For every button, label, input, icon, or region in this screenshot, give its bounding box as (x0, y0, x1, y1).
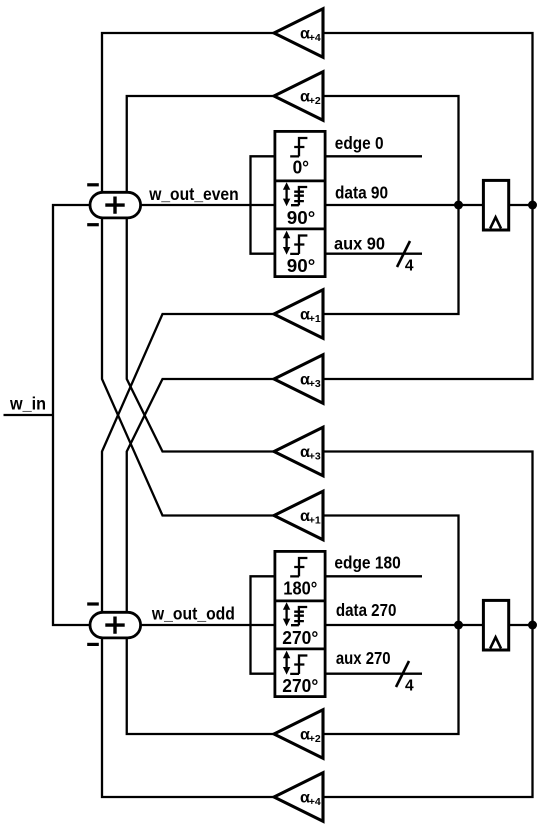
wire input bracket of bottom phase stack (251, 576, 275, 673)
svg-text:+3: +3 (309, 378, 321, 390)
wire alpha+2 top feedback: left to summer vertical (127, 96, 274, 193)
flip-flop U2 (odd delay element) (483, 600, 508, 650)
svg-text:edge 180: edge 180 (334, 552, 401, 572)
svg-text:aux 90: aux 90 (334, 233, 385, 253)
wire alpha+3 top output stub, diagonal to right vertical feeding summer S2 (127, 379, 274, 612)
wire w_out_even from summer S1 to phase box stack (141, 204, 275, 206)
wire left summer vertical down, diagonal to alpha+1 bottom output stub (102, 218, 274, 516)
svg-text:+2: +2 (309, 95, 321, 107)
svg-text:+1: +1 (309, 514, 321, 526)
summer S1 (even) (90, 192, 141, 218)
wire alpha+1 top output stub, diagonal to left vertical feeding summer S2 (102, 314, 274, 612)
wire data 270 output to flip-flop U2 and node (325, 624, 533, 626)
svg-text:w_in: w_in (9, 394, 46, 414)
flip-flop U1 (even delay element) (483, 180, 508, 230)
wire edge 0 output (325, 155, 422, 157)
wire alpha+4 bottom feedback: left to summer vertical (102, 638, 274, 797)
svg-text:w_out_even: w_out_even (148, 184, 238, 204)
phase generator block stack top (0/90/90) (275, 131, 325, 276)
svg-text:+3: +3 (309, 450, 321, 462)
wire alpha+4 top input from delayed data90 node (323, 33, 533, 379)
wire alpha+2 top input from data90 node; also alpha+1 top input (323, 96, 459, 314)
minus sign at S2 upper input (87, 602, 99, 605)
minus sign at S1 upper input (87, 183, 99, 186)
wire alpha+1 bottom input from data270 node; also alpha+2 bottom input (323, 516, 459, 735)
svg-text:4: 4 (405, 678, 414, 695)
bus-width slash on aux 270 (396, 661, 409, 687)
wire data 90 output to flip-flop U1 and node (325, 204, 533, 206)
svg-text:180°: 180° (283, 578, 317, 598)
wire alpha+2 bottom feedback: left to summer vertical (127, 638, 274, 734)
amplifier A5 alpha+3 bottom (274, 427, 323, 476)
svg-text:270°: 270° (282, 676, 318, 696)
svg-text:+4: +4 (309, 32, 321, 44)
amplifier A6 alpha+1 bottom (274, 491, 323, 540)
svg-text:+4: +4 (309, 796, 321, 808)
wire alpha+3 bottom input from delayed data270 node; also alpha+4 bottom input (323, 452, 533, 798)
node data270 delayed (junction dot) (528, 621, 537, 630)
svg-text:90°: 90° (287, 208, 316, 228)
summer S2 (odd) (90, 612, 141, 638)
node data270 (junction dot) (454, 621, 463, 630)
svg-text:+2: +2 (309, 733, 321, 745)
svg-text:aux 270: aux 270 (336, 648, 391, 668)
svg-text:90°: 90° (287, 256, 316, 276)
wire input bracket of top phase stack (251, 156, 275, 253)
edge-0 phase cell symbol (290, 137, 307, 157)
amplifier A2 alpha+2 top (274, 72, 323, 121)
amplifier A4 alpha+3 top (274, 355, 323, 404)
svg-text:0°: 0° (293, 157, 310, 177)
svg-text:270°: 270° (282, 628, 318, 648)
edge-180 phase cell symbol (290, 557, 307, 577)
aux-90 phase cell symbol (285, 237, 287, 248)
minus sign at S1 lower input (87, 223, 99, 226)
wire w_out_odd from summer S2 to phase box stack (141, 624, 275, 626)
svg-text:w_out_odd: w_out_odd (151, 604, 235, 624)
node data90 delayed (junction dot) (528, 201, 537, 210)
amplifier A8 alpha+4 bottom (274, 773, 323, 822)
bus-width slash on aux 90 (397, 241, 410, 267)
wire w_in input and vertical distribution to both summers (4, 205, 91, 625)
wire right summer vertical down, diagonal to alpha+3 bottom output stub (127, 218, 274, 452)
phase generator block stack bottom (180/270/270) (275, 551, 325, 696)
amplifier A1 alpha+4 top (274, 9, 323, 58)
wire aux 270 output (325, 673, 422, 675)
amplifier A3 alpha+1 top (274, 290, 323, 339)
data-90 phase cell symbol (285, 189, 287, 200)
svg-text:4: 4 (405, 258, 414, 275)
node data90 (junction dot) (454, 201, 463, 210)
wire aux 90 output (325, 253, 422, 255)
wire edge 180 output (325, 575, 422, 577)
svg-text:+1: +1 (309, 313, 321, 325)
minus sign at S2 lower input (87, 643, 99, 646)
amplifier A7 alpha+2 bottom (274, 710, 323, 759)
svg-text:edge 0: edge 0 (335, 133, 384, 153)
aux-270 phase cell symbol (285, 657, 287, 668)
svg-text:data 90: data 90 (335, 183, 388, 203)
wire alpha+4 top feedback: left to summer vertical (102, 33, 274, 193)
data-270 phase cell symbol (285, 609, 287, 620)
svg-text:data 270: data 270 (336, 600, 397, 620)
